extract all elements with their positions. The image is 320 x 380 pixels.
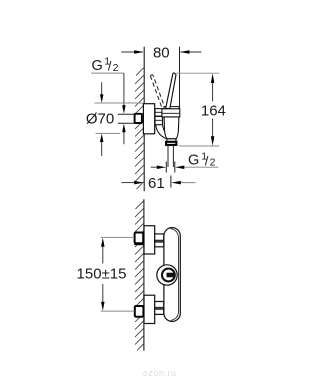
svg-text:G: G bbox=[188, 153, 199, 169]
escutcheon bottom (front view) bbox=[144, 295, 155, 323]
svg-text:2: 2 bbox=[113, 62, 119, 74]
dimension 150±15 bottom extension line bbox=[101, 310, 135, 312]
union nut (side view) bbox=[155, 109, 163, 125]
dimension 150±15 line bbox=[102, 245, 104, 264]
knob inner circle with G mark (front view) bbox=[162, 269, 175, 282]
supply pipe through wall bbox=[118, 113, 135, 115]
svg-text:Ø70: Ø70 bbox=[86, 111, 114, 128]
mixer body (front view) bbox=[164, 228, 180, 322]
wall section (front view) bbox=[143, 199, 145, 351]
cartridge cap (side view) bbox=[164, 107, 179, 109]
dimension 80 line left arrow bbox=[121, 51, 142, 53]
dimension G 1/2 bottom right arrow with underline bbox=[183, 166, 219, 168]
body elbow curve (side view) bbox=[156, 125, 167, 139]
dimension 61 right extension tick bbox=[170, 176, 172, 188]
svg-text:164: 164 bbox=[201, 102, 226, 119]
outlet ring 1 (side view) bbox=[167, 139, 176, 142]
dimension 150±15 top extension line bbox=[101, 236, 135, 238]
dimension Ø70 bottom arrow bbox=[101, 141, 103, 156]
dimension 61 left arrow bbox=[122, 182, 137, 184]
square union on wall (side view) bbox=[135, 114, 142, 123]
svg-text:80: 80 bbox=[153, 44, 170, 61]
svg-text:61: 61 bbox=[148, 175, 165, 192]
label G 1/2 top lower arrow bbox=[123, 131, 125, 145]
union nut top (front view) bbox=[155, 234, 164, 247]
square union top (front view) bbox=[135, 233, 144, 244]
dimension 164 top extension line bbox=[176, 72, 219, 74]
dimension 164 bottom extension line bbox=[179, 145, 219, 147]
svg-text:ozon.ru: ozon.ru bbox=[143, 368, 177, 378]
dimension G 1/2 bottom left arrow bbox=[151, 166, 159, 168]
lever handle dashed position bbox=[150, 76, 162, 108]
dimension 164 line bbox=[212, 80, 214, 102]
wall hatching (side view) bbox=[135, 68, 144, 190]
dimension Ø70 top extension line bbox=[95, 102, 144, 104]
union nut bottom (front view) bbox=[155, 302, 164, 315]
lever handle solid (side view) bbox=[166, 73, 176, 109]
collar ring (side view) bbox=[162, 109, 180, 117]
svg-text:2: 2 bbox=[210, 157, 216, 169]
dimension Ø70 bottom extension line bbox=[96, 132, 121, 134]
label G 1/2 top underline leader bbox=[91, 72, 124, 74]
svg-text:/: / bbox=[205, 154, 209, 168]
dimension 61 right arrow bbox=[179, 182, 196, 184]
wall section (side view) bbox=[143, 47, 145, 191]
mixer body inner highlight line (front view) bbox=[171, 229, 179, 321]
wall hatching (front view) bbox=[135, 201, 144, 351]
square union bottom (front view) bbox=[135, 306, 144, 317]
svg-text:/: / bbox=[108, 60, 112, 74]
mixer body (side view) bbox=[164, 117, 179, 139]
dimension Ø70 top arrow bbox=[101, 82, 103, 95]
escutcheon (side view) bbox=[143, 104, 154, 134]
svg-text:150±15: 150±15 bbox=[77, 266, 127, 283]
knob outer circle (front view) bbox=[157, 265, 177, 285]
outlet ring 2 (side view) bbox=[166, 142, 176, 145]
outlet pipe (side view) bbox=[167, 145, 169, 167]
dimension 80 right extension line bbox=[179, 47, 181, 109]
dimension G 1/2 bottom extension ticks bbox=[165, 162, 167, 173]
escutcheon top (front view) bbox=[144, 226, 155, 254]
svg-text:G: G bbox=[92, 58, 103, 74]
dimension 80 line right arrow bbox=[181, 51, 202, 53]
